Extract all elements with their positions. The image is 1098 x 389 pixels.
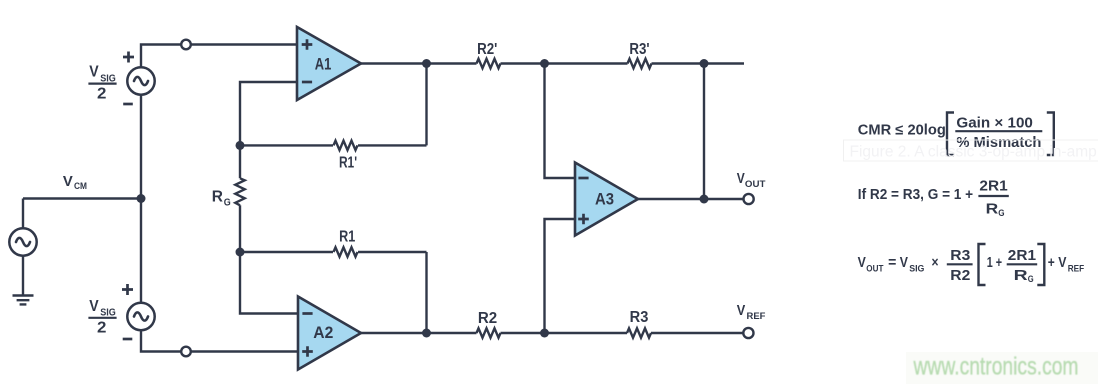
svg-text:G: G: [224, 197, 231, 208]
svg-text:OUT: OUT: [745, 179, 766, 190]
svg-text:1 +: 1 +: [987, 255, 1002, 271]
svg-text:R: R: [1014, 268, 1029, 284]
svg-text:G: G: [998, 208, 1004, 219]
svg-text:Gain × 100: Gain × 100: [956, 115, 1033, 131]
svg-text:R: R: [212, 189, 223, 206]
svg-text:Figure 2. A classic 3-op-amp i: Figure 2. A classic 3-op-amp in-amp: [850, 144, 1097, 161]
svg-text:2: 2: [97, 85, 106, 102]
svg-text:V: V: [1058, 255, 1066, 271]
svg-text:2: 2: [97, 320, 106, 337]
svg-text:V: V: [89, 64, 99, 81]
svg-text:2R1: 2R1: [1008, 248, 1036, 264]
svg-text:R3': R3': [629, 41, 649, 58]
svg-text:R3: R3: [630, 309, 649, 326]
svg-text:=: =: [888, 255, 896, 271]
svg-text:V: V: [858, 255, 866, 271]
svg-text:+: +: [1048, 255, 1055, 271]
svg-text:2R1: 2R1: [979, 179, 1007, 195]
svg-text:CM: CM: [74, 181, 87, 192]
svg-text:A1: A1: [315, 56, 332, 74]
svg-text:V: V: [63, 173, 73, 190]
svg-text:www.cntronics.com: www.cntronics.com: [913, 353, 1079, 381]
svg-text:G: G: [1028, 274, 1034, 285]
svg-text:R1: R1: [339, 229, 355, 246]
svg-text:V: V: [737, 171, 745, 187]
svg-text:R: R: [986, 202, 999, 218]
svg-text:A3: A3: [595, 191, 614, 209]
svg-text:REF: REF: [747, 311, 766, 322]
svg-text:OUT: OUT: [866, 264, 883, 275]
svg-text:SIG: SIG: [909, 264, 924, 275]
svg-text:R2: R2: [950, 268, 970, 284]
svg-text:A2: A2: [313, 324, 333, 342]
svg-text:R2': R2': [477, 41, 497, 58]
svg-text:CMR ≤ 20log: CMR ≤ 20log: [858, 122, 946, 138]
svg-text:×: ×: [932, 255, 939, 271]
svg-text:R1': R1': [339, 155, 357, 172]
svg-text:V: V: [737, 303, 746, 319]
svg-text:REF: REF: [1068, 264, 1085, 275]
svg-text:R3: R3: [950, 248, 970, 264]
svg-text:R2: R2: [478, 310, 497, 327]
svg-text:V: V: [89, 298, 99, 315]
svg-text:If R2 = R3, G = 1 +: If R2 = R3, G = 1 +: [858, 187, 973, 203]
svg-text:V: V: [900, 255, 908, 271]
